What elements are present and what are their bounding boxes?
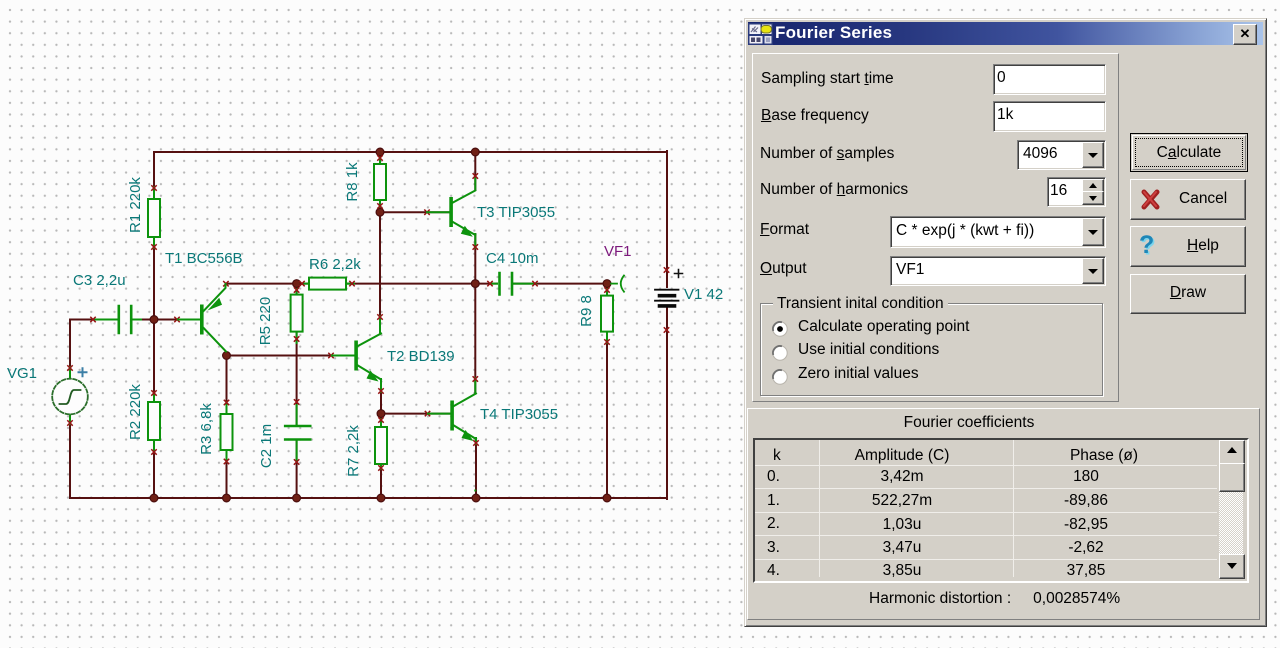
resistor R7: [375, 427, 387, 464]
svg-text:V1 42: V1 42: [684, 286, 723, 303]
wire T1 emitter row to R5/R6 node: [226, 284, 310, 285]
resistor R8: [374, 164, 386, 200]
capacitor C2: [285, 426, 310, 440]
junction node C4/R9/VF1: [603, 280, 611, 288]
Help button: [1130, 226, 1246, 267]
combo: number of samples: [1017, 140, 1106, 170]
junction node output T3/T4/C4/R6: [471, 280, 479, 288]
wire T4 collector up: [474, 284, 476, 393]
resistor R1: [148, 199, 160, 237]
wire R2 bottom: [153, 440, 155, 498]
title bar: [748, 22, 1263, 45]
svg-text:R3 6,8k: R3 6,8k: [198, 403, 215, 455]
junction node R8/T3-base/T2-collector: [376, 208, 384, 216]
junction node T1-emitter/R5/R6: [293, 280, 301, 288]
wire bottom ground rail: [70, 497, 667, 499]
transistor T4 (TIP3055 NPN): [428, 394, 476, 442]
transistor T1 (BC556B PNP): [178, 284, 226, 352]
input: sampling start time: [993, 64, 1106, 95]
junction node top rail R8: [376, 148, 384, 156]
svg-text:R1 220k: R1 220k: [127, 177, 144, 233]
wire T3 emitter to output node: [474, 234, 476, 284]
svg-text:C4 10m: C4 10m: [486, 250, 539, 267]
junction node ground R2: [150, 494, 158, 502]
transistor T2 (BD139 NPN): [332, 334, 381, 382]
svg-text:R5 220: R5 220: [257, 297, 274, 345]
pin tick marks: [68, 156, 669, 470]
svg-text:VF1: VF1: [604, 243, 632, 260]
inner form panel: [752, 53, 1119, 402]
svg-text:T1 BC556B: T1 BC556B: [165, 250, 243, 267]
Cancel button: [1130, 179, 1246, 220]
svg-text:R2 220k: R2 220k: [127, 384, 144, 440]
field labels: [761, 70, 894, 88]
svg-text:C3 2,2u: C3 2,2u: [73, 272, 126, 289]
wire R5 to C2: [296, 284, 298, 425]
scrollbar: [1219, 440, 1243, 577]
capacitor C4: [500, 273, 513, 295]
junction node T2-emitter/R7/T4-base: [377, 410, 385, 418]
close button: [1233, 24, 1257, 45]
svg-text:T4 TIP3055: T4 TIP3055: [480, 406, 558, 423]
title text: [775, 23, 892, 43]
junction node C3/R1/R2/T1-base: [150, 316, 158, 324]
wire R8 column: [379, 152, 381, 333]
resistor R3: [221, 414, 233, 450]
header row: [773, 447, 781, 465]
wire VG1 top to C3: [70, 320, 118, 378]
resistor R2: [148, 402, 160, 440]
wire T2 base row: [227, 355, 355, 357]
VG1 plus sign: [79, 368, 87, 376]
combo: format: [890, 216, 1106, 248]
svg-text:R6 2,2k: R6 2,2k: [309, 256, 361, 273]
wire R9 column: [606, 284, 608, 498]
wire T2 emitter to T4 base node: [380, 380, 382, 427]
wire T3 base row: [380, 211, 449, 213]
junction node ground C2: [293, 494, 301, 502]
wire C3 to T1 base node: [132, 319, 200, 321]
wire R7 bottom: [380, 464, 382, 498]
data rows: [767, 468, 780, 486]
junction node ground R7: [377, 494, 385, 502]
spinner: number of harmonics: [1047, 177, 1106, 207]
wire V1 top: [666, 151, 668, 287]
wire C4 left: [475, 283, 497, 285]
radio 3: [772, 369, 788, 385]
capacitor C3: [119, 306, 131, 333]
radio 1 (selected): [772, 321, 788, 337]
junction node T1-collector/R3/T2-base: [223, 352, 231, 360]
wire VG1 bottom: [69, 415, 71, 498]
svg-text:R7 2,2k: R7 2,2k: [345, 425, 362, 477]
title icon: [748, 23, 773, 45]
input: base frequency: [993, 101, 1106, 132]
V1 plus sign: [675, 270, 683, 278]
Fourier coefficients panel: [747, 408, 1260, 620]
resistor R6: [309, 278, 346, 290]
wire top supply rail: [154, 151, 667, 153]
wire T4 emitter down: [475, 438, 477, 498]
wire T4 base row: [381, 413, 450, 415]
transistor T3 (TIP3055 NPN): [427, 191, 475, 237]
wire C4 right to VF1 node: [514, 283, 608, 285]
svg-text:T2 BD139: T2 BD139: [387, 348, 455, 365]
wire C2 bottom: [296, 440, 298, 498]
svg-text:R9 8: R9 8: [578, 295, 595, 327]
wire R6 right to output column: [346, 283, 475, 285]
component pins (green): [70, 157, 607, 491]
wire T3 collector top: [474, 152, 476, 190]
svg-text:T3 TIP3055: T3 TIP3055: [477, 204, 555, 221]
coefficients table: [753, 438, 1249, 583]
combo: output: [890, 256, 1106, 286]
Calculate button (default): [1130, 133, 1248, 172]
junction node top rail T3: [471, 148, 479, 156]
harmonic distortion line: [869, 590, 1120, 608]
junction node ground R9: [603, 494, 611, 502]
output pin VF1: [611, 276, 624, 292]
Draw button: [1130, 274, 1246, 314]
radio 2: [772, 345, 788, 361]
group box: transient initial condition: [760, 303, 1103, 396]
wire T1 collector node to R3: [226, 356, 228, 499]
svg-text:VG1: VG1: [7, 365, 37, 382]
grid lines: [755, 465, 1217, 466]
junction node ground R3: [223, 494, 231, 502]
source VG1: [52, 379, 88, 415]
junction node ground T4: [472, 494, 480, 502]
resistor R5: [291, 295, 303, 332]
svg-text:R8 1k: R8 1k: [344, 162, 361, 202]
resistor R9: [601, 296, 613, 332]
battery V1: [655, 290, 679, 306]
wire V1 bottom: [666, 308, 668, 499]
svg-text:C2 1m: C2 1m: [258, 424, 275, 468]
wire R1 column: [153, 152, 155, 402]
